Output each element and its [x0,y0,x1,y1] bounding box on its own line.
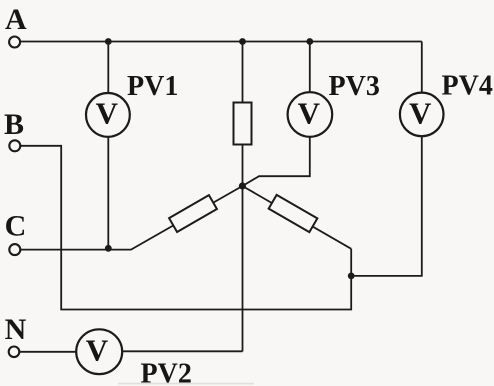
svg-text:N: N [5,313,27,346]
svg-text:PV1: PV1 [127,71,178,102]
svg-text:V: V [86,332,109,367]
svg-text:PV4: PV4 [442,71,493,102]
svg-text:V: V [298,96,321,131]
svg-text:C: C [5,209,27,242]
svg-text:V: V [96,96,119,131]
svg-text:PV2: PV2 [141,359,192,386]
svg-text:A: A [5,3,27,36]
svg-text:V: V [409,95,432,130]
svg-text:B: B [4,108,24,141]
svg-text:PV3: PV3 [329,71,380,102]
